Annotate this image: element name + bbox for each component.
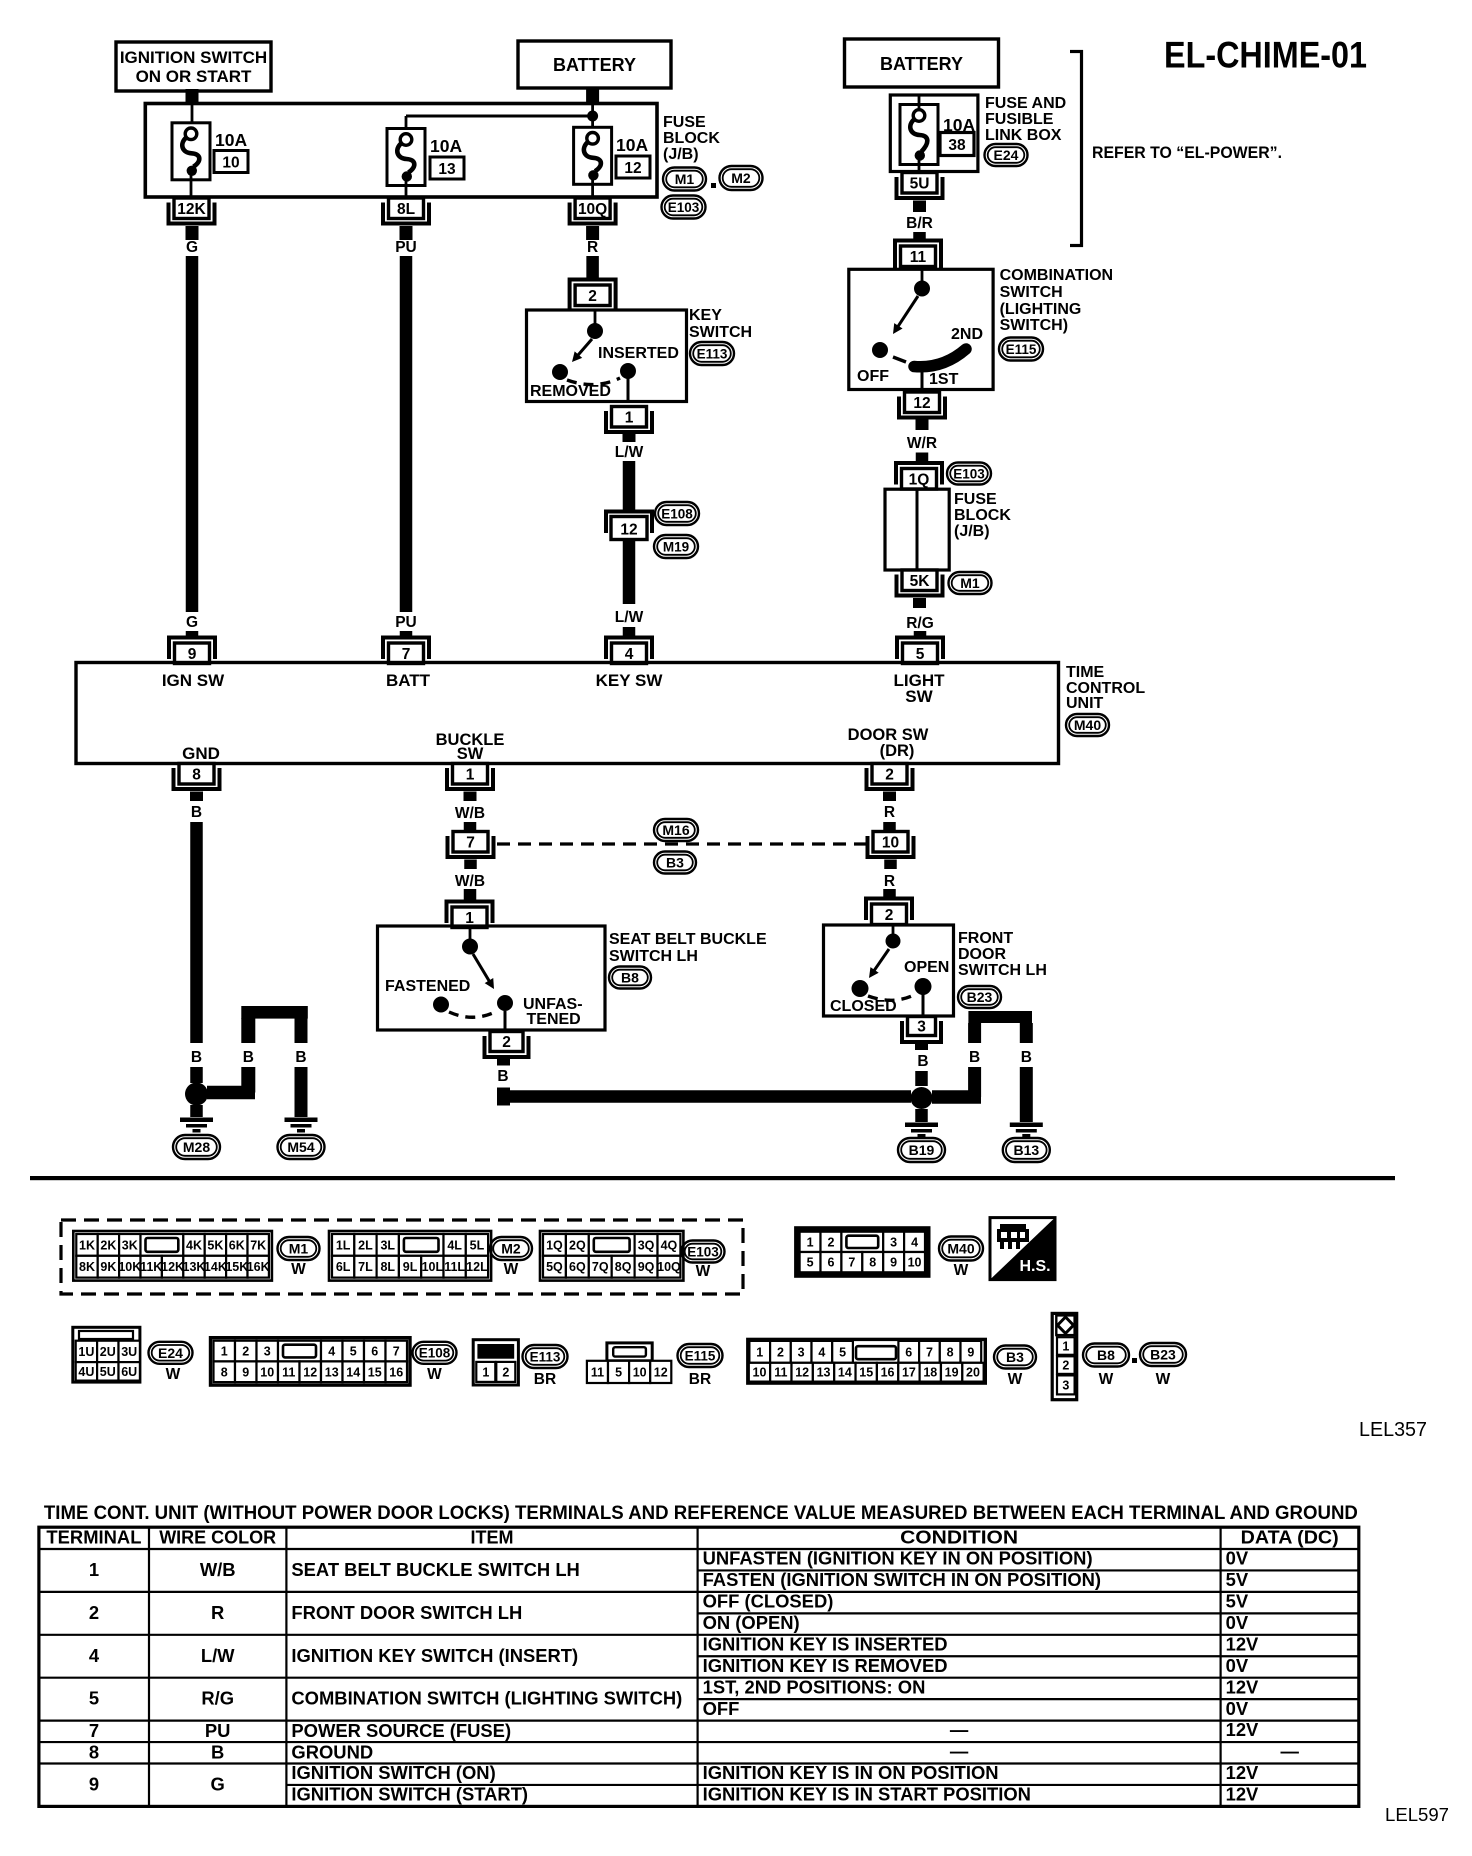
connector 1 (key switch) — [606, 407, 652, 433]
svg-text:COMBINATION SWITCH (LIGHTING S: COMBINATION SWITCH (LIGHTING SWITCH) — [291, 1688, 682, 1709]
svg-text:TIME CONT. UNIT (WITHOUT POWER: TIME CONT. UNIT (WITHOUT POWER DOOR LOCK… — [44, 1503, 1358, 1524]
svg-text:19: 19 — [945, 1366, 959, 1380]
svg-text:W: W — [1008, 1371, 1023, 1388]
label REMOVED — [530, 383, 611, 400]
svg-text:SWITCH: SWITCH — [689, 324, 752, 341]
svg-text:5U: 5U — [100, 1365, 116, 1379]
svg-text:3: 3 — [890, 1235, 897, 1249]
comb switch dash segment — [893, 357, 906, 362]
fuse block J/B rectangle — [145, 104, 657, 198]
label wire B (left column) — [191, 1049, 202, 1066]
label wire R (lower) — [884, 873, 895, 890]
svg-text:W/R: W/R — [907, 435, 937, 452]
label wire B (bus right leg) — [295, 1049, 306, 1066]
svg-text:12V: 12V — [1226, 1676, 1259, 1697]
svg-text:SEAT BELT BUCKLE: SEAT BELT BUCKLE — [609, 931, 767, 948]
svg-text:—: — — [950, 1719, 969, 1740]
svg-text:1Q: 1Q — [909, 471, 930, 488]
door switch dashed arc — [868, 995, 914, 1000]
svg-text:E24: E24 — [994, 147, 1019, 163]
connector 5K — [897, 570, 943, 596]
wire ignition switch to fuse block — [186, 89, 199, 105]
wire B stub to junction — [190, 1067, 203, 1083]
svg-text:M2: M2 — [731, 170, 751, 186]
svg-text:7: 7 — [466, 834, 475, 851]
connector ref B8 — [1083, 1344, 1129, 1389]
svg-text:BATTERY: BATTERY — [880, 54, 963, 74]
svg-text:R: R — [587, 239, 598, 256]
svg-text:B8: B8 — [1097, 1347, 1115, 1363]
svg-text:KEY SW: KEY SW — [596, 671, 664, 690]
text fuse block right label — [954, 491, 1011, 540]
connector ref B23 — [1140, 1343, 1186, 1388]
svg-text:9: 9 — [188, 646, 197, 663]
table row terminal 1 — [89, 1548, 1249, 1590]
svg-text:12: 12 — [620, 522, 637, 539]
svg-text:IGNITION KEY IS IN START POSIT: IGNITION KEY IS IN START POSITION — [703, 1784, 1031, 1805]
svg-text:TENED: TENED — [527, 1011, 581, 1028]
svg-text:1: 1 — [756, 1345, 763, 1359]
svg-text:B: B — [969, 1049, 980, 1066]
wire stub under key switch 1 — [623, 434, 636, 442]
connector 10Q — [570, 198, 616, 224]
svg-text:B23: B23 — [967, 989, 993, 1005]
svg-text:13: 13 — [817, 1366, 831, 1380]
svg-text:4: 4 — [625, 646, 634, 663]
comb switch OFF terminal — [872, 342, 888, 358]
connector 2 (key switch) — [570, 280, 616, 311]
svg-text:0V: 0V — [1226, 1655, 1249, 1676]
connector grid E113 — [473, 1340, 518, 1385]
svg-text:4: 4 — [818, 1345, 825, 1359]
svg-text:5: 5 — [839, 1345, 846, 1359]
svg-text:6: 6 — [905, 1345, 912, 1359]
label wire B (door bus left leg) — [969, 1049, 980, 1066]
svg-text:R: R — [211, 1602, 224, 1623]
svg-text:G: G — [186, 239, 198, 256]
svg-text:1ST, 2ND POSITIONS: ON: 1ST, 2ND POSITIONS: ON — [703, 1676, 926, 1697]
title EL-CHIME-01 — [1164, 35, 1367, 76]
fuse 13 (10A) — [387, 129, 425, 186]
svg-text:1: 1 — [465, 910, 474, 927]
svg-text:E103: E103 — [668, 200, 700, 215]
wire fuse block internal feed to fuse 10 — [191, 105, 194, 127]
svg-text:BLOCK: BLOCK — [663, 130, 720, 147]
svg-text:GROUND: GROUND — [291, 1741, 373, 1762]
svg-text:ON OR START: ON OR START — [136, 67, 252, 86]
svg-text:2: 2 — [588, 288, 597, 305]
connector 3 (front door switch) — [902, 1017, 941, 1043]
svg-text:4L: 4L — [447, 1238, 462, 1252]
svg-text:10K: 10K — [118, 1260, 141, 1274]
svg-text:3L: 3L — [380, 1238, 395, 1252]
connector 2 (seat belt buckle switch) — [485, 1032, 529, 1058]
svg-text:INSERTED: INSERTED — [598, 345, 679, 362]
svg-text:H.S.: H.S. — [1019, 1258, 1050, 1275]
dashed harness box — [61, 1220, 743, 1294]
svg-text:12: 12 — [795, 1366, 809, 1380]
wire W/B stub upper — [464, 822, 477, 832]
svg-text:8: 8 — [221, 1365, 228, 1379]
junction battery bus — [587, 111, 598, 122]
svg-text:2L: 2L — [358, 1238, 373, 1252]
box battery (right) — [845, 39, 999, 87]
svg-text:GND: GND — [182, 744, 220, 763]
svg-text:14K: 14K — [204, 1260, 227, 1274]
svg-text:8L: 8L — [380, 1260, 395, 1274]
label wire L/W (lower) — [615, 609, 644, 626]
svg-text:L/W: L/W — [615, 609, 644, 626]
svg-text:11: 11 — [591, 1365, 604, 1379]
svg-text:16: 16 — [881, 1366, 895, 1380]
vertical connector 1-2-3 — [1052, 1313, 1077, 1399]
connector grid E24 — [73, 1327, 140, 1382]
buckle switch dashed arc — [449, 1011, 497, 1017]
svg-text:9: 9 — [967, 1345, 974, 1359]
label KEY SW — [596, 671, 664, 690]
wire stub under TCU 1 — [464, 792, 477, 802]
svg-text:TERMINAL: TERMINAL — [46, 1528, 141, 1548]
svg-text:E108: E108 — [661, 506, 693, 521]
label CLOSED — [830, 998, 897, 1015]
ground ref M28 — [173, 1135, 220, 1159]
svg-text:10: 10 — [260, 1365, 274, 1379]
svg-text:5V: 5V — [1226, 1569, 1249, 1590]
svg-text:OFF: OFF — [857, 368, 889, 385]
svg-text:L/W: L/W — [201, 1645, 235, 1666]
H.S. icon — [990, 1218, 1055, 1280]
wire stub under 10Q — [586, 226, 599, 240]
svg-text:G: G — [186, 614, 198, 631]
connector 4 (TCU key sw) — [606, 638, 652, 664]
connector ref M40 (grid) — [939, 1237, 983, 1280]
connector ref M2 (grid) — [490, 1237, 532, 1278]
connector ref E115 (combination switch) — [999, 338, 1043, 361]
svg-text:1: 1 — [89, 1559, 99, 1580]
svg-text:B: B — [243, 1049, 254, 1066]
svg-text:12: 12 — [624, 160, 641, 177]
wire L/W upper segment — [623, 461, 636, 511]
svg-text:5: 5 — [916, 646, 925, 663]
svg-text:16K: 16K — [247, 1260, 270, 1274]
label wire B (buckle) — [497, 1068, 508, 1085]
connector 8 (TCU gnd) — [174, 764, 220, 790]
svg-text:9Q: 9Q — [638, 1260, 655, 1274]
svg-text:M16: M16 — [662, 822, 689, 838]
svg-text:BATT: BATT — [386, 671, 431, 690]
front door switch box — [824, 925, 954, 1016]
svg-text:12: 12 — [303, 1365, 317, 1379]
svg-text:6Q: 6Q — [569, 1260, 586, 1274]
svg-text:M40: M40 — [1074, 717, 1101, 733]
svg-text:10A: 10A — [215, 130, 247, 150]
wire R stub lower — [883, 889, 896, 898]
svg-text:ON (OPEN): ON (OPEN) — [703, 1612, 800, 1633]
svg-text:W/B: W/B — [200, 1559, 236, 1580]
svg-text:B: B — [191, 804, 202, 821]
svg-text:10Q: 10Q — [657, 1260, 681, 1274]
comb switch top terminal — [914, 270, 930, 297]
separator dot B8 B23 — [1132, 1358, 1137, 1363]
key switch inserted terminal — [620, 363, 636, 379]
combination switch box — [849, 269, 993, 389]
svg-text:LINK BOX: LINK BOX — [985, 127, 1062, 144]
svg-text:M54: M54 — [287, 1139, 314, 1155]
svg-text:13: 13 — [438, 161, 456, 178]
svg-text:1ST: 1ST — [929, 371, 959, 388]
svg-text:3: 3 — [798, 1345, 805, 1359]
wire stub under 8L — [400, 226, 413, 240]
svg-text:2ND: 2ND — [951, 326, 983, 343]
seat belt buckle switch box — [378, 926, 606, 1030]
text time control unit — [1066, 664, 1145, 712]
connector grid E115 — [587, 1343, 671, 1383]
connector 2 (front door switch) — [866, 899, 912, 925]
label wire W/R — [907, 435, 937, 452]
svg-text:9: 9 — [89, 1773, 99, 1794]
fuse and fusible link box — [890, 95, 978, 172]
svg-text:8Q: 8Q — [615, 1260, 632, 1274]
svg-text:8L: 8L — [397, 201, 415, 218]
connector 1 (seat belt buckle switch) — [447, 902, 493, 928]
connector ref M1 (fuse block) — [663, 168, 706, 191]
svg-text:E115: E115 — [685, 1348, 716, 1363]
svg-text:B19: B19 — [909, 1142, 935, 1158]
svg-text:CLOSED: CLOSED — [830, 998, 897, 1015]
svg-text:OFF: OFF — [703, 1698, 740, 1719]
svg-text:0V: 0V — [1226, 1698, 1249, 1719]
svg-text:4K: 4K — [186, 1238, 202, 1252]
svg-text:BR: BR — [534, 1371, 556, 1388]
wire stub under TCU 2 — [883, 792, 896, 802]
connector ref B23 (door switch) — [958, 986, 1001, 1008]
connector ref M40 (TCU) — [1066, 714, 1109, 736]
ground bus inverted-U right — [932, 1011, 1033, 1104]
svg-text:12L: 12L — [466, 1260, 488, 1274]
svg-text:SWITCH): SWITCH) — [1000, 317, 1068, 334]
svg-text:(DR): (DR) — [880, 742, 915, 760]
table row terminal 9 — [89, 1762, 1259, 1804]
wire bus right leg lower — [295, 1067, 308, 1117]
svg-text:5: 5 — [89, 1688, 99, 1709]
svg-text:2: 2 — [885, 766, 894, 783]
svg-text:1L: 1L — [336, 1238, 351, 1252]
svg-text:12V: 12V — [1226, 1762, 1259, 1783]
svg-text:13: 13 — [325, 1365, 339, 1379]
svg-text:4: 4 — [328, 1345, 335, 1359]
wire door bus right leg lower — [1020, 1067, 1033, 1122]
box ignition switch source — [116, 42, 271, 91]
wire B vertical — [190, 822, 203, 1043]
label BATT — [386, 671, 431, 690]
svg-text:B23: B23 — [1150, 1347, 1176, 1363]
svg-text:ITEM: ITEM — [471, 1528, 514, 1548]
svg-text:2K: 2K — [100, 1238, 116, 1252]
svg-text:UNIT: UNIT — [1066, 695, 1104, 712]
svg-text:TIME: TIME — [1066, 664, 1105, 681]
svg-text:8: 8 — [947, 1345, 954, 1359]
label IGN SW — [162, 671, 225, 690]
svg-text:3: 3 — [917, 1019, 926, 1036]
svg-text:12: 12 — [654, 1365, 668, 1379]
svg-text:FASTENED: FASTENED — [385, 978, 470, 995]
svg-text:R: R — [884, 804, 895, 821]
svg-text:10A: 10A — [430, 136, 462, 156]
svg-text:12K: 12K — [177, 201, 206, 218]
svg-text:20: 20 — [966, 1366, 980, 1380]
svg-text:2: 2 — [502, 1365, 509, 1379]
connector 12 (combination switch) — [899, 392, 945, 418]
connector ref M16 — [654, 819, 698, 841]
wire PU vertical — [400, 256, 413, 612]
svg-text:IGNITION KEY IS REMOVED: IGNITION KEY IS REMOVED — [703, 1655, 948, 1676]
svg-text:W/B: W/B — [455, 805, 485, 822]
svg-text:1: 1 — [482, 1365, 489, 1379]
svg-text:3U: 3U — [121, 1345, 137, 1359]
svg-text:8: 8 — [192, 766, 201, 783]
wire stub under 12K — [186, 226, 199, 240]
fuse 12 (10A) — [574, 127, 612, 184]
text fuse block label — [663, 114, 720, 163]
svg-text:BATTERY: BATTERY — [553, 55, 636, 75]
svg-text:38: 38 — [948, 137, 966, 154]
svg-text:16: 16 — [389, 1365, 403, 1379]
svg-text:18: 18 — [923, 1366, 937, 1380]
fuse block J/B right rectangle — [885, 489, 949, 570]
text key switch label — [689, 307, 752, 341]
svg-text:WIRE COLOR: WIRE COLOR — [159, 1528, 276, 1548]
svg-text:1: 1 — [625, 409, 634, 426]
svg-text:FRONT: FRONT — [958, 930, 1013, 947]
svg-text:8: 8 — [869, 1256, 876, 1270]
svg-text:BLOCK: BLOCK — [954, 507, 1011, 524]
svg-text:1Q: 1Q — [546, 1238, 563, 1252]
svg-text:COMBINATION: COMBINATION — [1000, 267, 1113, 284]
svg-text:11: 11 — [910, 249, 927, 266]
svg-text:FRONT DOOR SWITCH LH: FRONT DOOR SWITCH LH — [291, 1602, 522, 1623]
label LIGHT SW — [894, 671, 946, 706]
key switch box — [527, 310, 687, 402]
buckle switch output wire — [504, 1011, 507, 1031]
svg-text:4Q: 4Q — [661, 1238, 678, 1252]
svg-text:E103: E103 — [953, 466, 985, 481]
svg-text:LEL357: LEL357 — [1359, 1419, 1427, 1441]
svg-text:5: 5 — [350, 1345, 357, 1359]
svg-text:SWITCH LH: SWITCH LH — [958, 962, 1047, 979]
ground ref M54 — [278, 1135, 325, 1159]
label BUCKLE SW — [436, 731, 505, 763]
svg-text:1U: 1U — [78, 1345, 94, 1359]
svg-text:W: W — [696, 1263, 711, 1280]
svg-text:7: 7 — [402, 646, 411, 663]
svg-text:12V: 12V — [1226, 1633, 1259, 1654]
connector ref E113 (key switch) — [690, 342, 734, 365]
svg-text:12K: 12K — [161, 1260, 184, 1274]
wire L/W lower segment — [623, 540, 636, 605]
wire L/W stub to TCU — [623, 627, 636, 638]
connector grid E103 — [540, 1231, 683, 1281]
connector 10 M16/B3 — [868, 832, 914, 858]
buckle switch unfastened terminal — [497, 995, 513, 1011]
svg-text:FASTEN (IGNITION SWITCH IN ON: FASTEN (IGNITION SWITCH IN ON POSITION) — [703, 1569, 1101, 1590]
svg-text:W: W — [427, 1366, 442, 1383]
svg-text:2: 2 — [502, 1034, 511, 1051]
svg-text:10: 10 — [633, 1365, 647, 1379]
svg-text:11K: 11K — [140, 1260, 162, 1274]
svg-text:2: 2 — [777, 1345, 784, 1359]
text combination switch label — [1000, 267, 1113, 334]
svg-text:6L: 6L — [336, 1260, 351, 1274]
svg-text:(LIGHTING: (LIGHTING — [1000, 301, 1082, 318]
wire R/G stub to TCU — [914, 631, 927, 638]
wire door stub to junction — [915, 1071, 928, 1086]
junction ground right — [911, 1087, 933, 1109]
svg-text:3K: 3K — [122, 1238, 138, 1252]
svg-text:7: 7 — [926, 1345, 933, 1359]
wire W/R stub — [916, 453, 929, 464]
svg-text:B8: B8 — [621, 970, 639, 986]
connector ref E108 (mid) — [655, 502, 699, 525]
svg-text:W: W — [1156, 1371, 1171, 1388]
label GND — [182, 744, 220, 763]
svg-text:UNFASTEN (IGNITION KEY IN ON P: UNFASTEN (IGNITION KEY IN ON POSITION) — [703, 1548, 1093, 1569]
svg-text:4: 4 — [89, 1645, 100, 1666]
table title — [44, 1503, 1358, 1524]
svg-text:5K: 5K — [207, 1238, 223, 1252]
svg-text:4: 4 — [911, 1235, 918, 1249]
connector ref E103 (fuse block) — [662, 196, 706, 219]
svg-text:2: 2 — [89, 1602, 99, 1623]
wire B/R stub — [913, 232, 926, 242]
label wire R (upper) — [884, 804, 895, 821]
wire fuse 13 to connector 8L — [405, 180, 408, 197]
svg-text:E113: E113 — [697, 346, 728, 361]
svg-text:REFER TO “EL-POWER”.: REFER TO “EL-POWER”. — [1092, 143, 1282, 162]
svg-text:FUSE AND: FUSE AND — [985, 95, 1066, 112]
svg-text:11: 11 — [282, 1365, 295, 1379]
svg-text:1: 1 — [466, 766, 475, 783]
comb switch 1st-2nd arc — [914, 349, 966, 367]
svg-text:SW: SW — [905, 687, 933, 706]
label 1ST — [929, 371, 959, 388]
box battery (center) — [518, 41, 671, 88]
label wire G (bottom) — [186, 614, 198, 631]
label wire G (top) — [186, 239, 198, 256]
wire stub under comb 12 — [916, 420, 929, 431]
label INSERTED — [598, 345, 679, 362]
ground symbol M54 — [285, 1118, 318, 1133]
svg-text:M1: M1 — [289, 1241, 309, 1257]
svg-text:FUSIBLE: FUSIBLE — [985, 111, 1054, 128]
wire battery bus inside fuse block — [406, 105, 593, 134]
svg-text:(J/B): (J/B) — [954, 523, 990, 540]
svg-text:13K: 13K — [183, 1260, 206, 1274]
svg-text:BR: BR — [689, 1371, 711, 1388]
label UNFAS-TENED — [523, 996, 583, 1028]
connector grid B3 — [748, 1339, 986, 1383]
wire stub under TCU 8 — [190, 792, 203, 802]
wire R stub upper — [883, 822, 896, 832]
comb switch output wire — [921, 369, 924, 390]
harness dashed line M16/B3 — [497, 842, 866, 845]
svg-text:IGNITION KEY SWITCH (INSERT): IGNITION KEY SWITCH (INSERT) — [291, 1645, 578, 1666]
connector ref E24 (grid) — [149, 1342, 193, 1383]
svg-text:0V: 0V — [1226, 1548, 1249, 1569]
svg-text:2: 2 — [242, 1345, 249, 1359]
wire stub under door 3 — [915, 1041, 928, 1050]
svg-text:SW: SW — [457, 745, 484, 763]
door switch open terminal — [915, 978, 932, 995]
